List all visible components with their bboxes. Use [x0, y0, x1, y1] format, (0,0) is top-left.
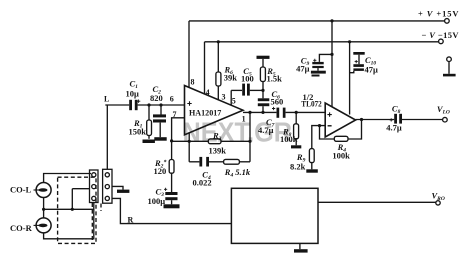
svg-text:4.7μ: 4.7μ [386, 122, 402, 132]
svg-text:CO-L: CO-L [10, 184, 32, 194]
svg-text:7: 7 [173, 110, 177, 119]
svg-text:3: 3 [222, 93, 226, 102]
svg-text:100μ: 100μ [148, 196, 166, 206]
svg-text:1: 1 [242, 114, 246, 123]
svg-text:1.5k: 1.5k [267, 74, 283, 84]
svg-text:560: 560 [271, 97, 284, 107]
svg-text:HA12017: HA12017 [189, 107, 222, 117]
svg-text:CO-R: CO-R [10, 223, 33, 233]
svg-text:R45.1k: R45.1k [224, 167, 251, 179]
svg-text:47μ: 47μ [296, 64, 310, 74]
svg-text:120: 120 [154, 166, 167, 176]
svg-text:5: 5 [232, 96, 236, 105]
svg-text:4: 4 [206, 88, 210, 97]
svg-text:6: 6 [170, 94, 174, 103]
svg-text:100: 100 [241, 74, 254, 84]
svg-text:NEXT.GR: NEXT.GR [183, 117, 293, 148]
svg-text:8.2k: 8.2k [290, 161, 306, 171]
svg-text:− V −15V: − V −15V [422, 30, 460, 40]
svg-text:39k: 39k [224, 72, 238, 82]
svg-text:10μ: 10μ [126, 89, 140, 99]
svg-text:47μ: 47μ [365, 65, 379, 75]
svg-text:139k: 139k [209, 145, 227, 155]
svg-text:100k: 100k [280, 134, 298, 144]
svg-text:820: 820 [150, 93, 163, 103]
svg-text:TL072: TL072 [301, 99, 322, 109]
svg-text:100k: 100k [332, 151, 350, 161]
svg-text:0.022: 0.022 [193, 178, 212, 188]
svg-text:8: 8 [191, 77, 195, 86]
svg-text:R: R [128, 216, 134, 225]
svg-text:150k: 150k [129, 127, 147, 137]
svg-text:L: L [104, 95, 109, 104]
svg-text:4.7μ: 4.7μ [258, 125, 274, 135]
svg-text:+ V +15V: + V +15V [418, 9, 459, 19]
